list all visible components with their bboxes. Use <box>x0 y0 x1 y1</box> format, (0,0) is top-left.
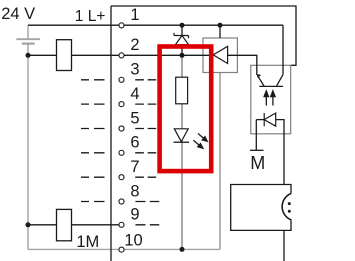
svg-text:1M: 1M <box>76 233 99 251</box>
svg-text:M: M <box>250 153 265 173</box>
svg-text:9: 9 <box>130 206 139 224</box>
svg-text:8: 8 <box>130 182 139 200</box>
svg-text:3: 3 <box>130 61 139 79</box>
svg-text:5: 5 <box>130 109 139 127</box>
svg-text:7: 7 <box>130 158 139 176</box>
svg-text:10: 10 <box>124 232 142 250</box>
svg-text:1: 1 <box>130 6 139 24</box>
svg-text:24 V: 24 V <box>1 5 35 23</box>
svg-text:1 L+: 1 L+ <box>75 8 106 25</box>
svg-text:2: 2 <box>130 36 139 54</box>
svg-text:6: 6 <box>130 134 139 152</box>
svg-text:4: 4 <box>130 85 139 103</box>
